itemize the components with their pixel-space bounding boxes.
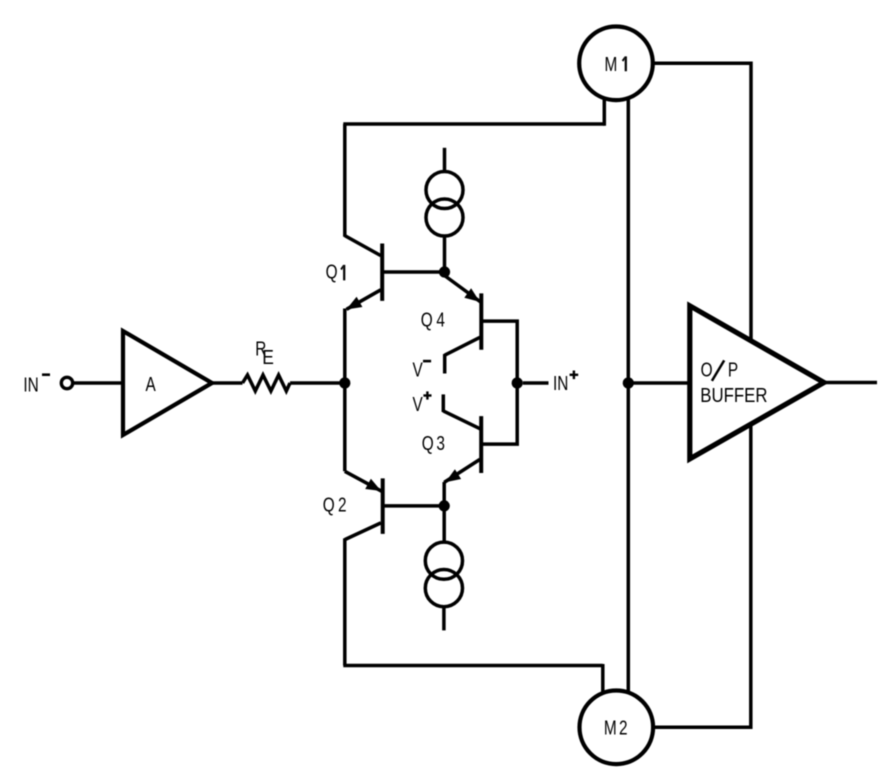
amplifier A [123, 331, 212, 435]
label IN- [23, 373, 50, 396]
svg-text:O: O [701, 358, 713, 381]
op-amp O/P buffer triangle [690, 306, 824, 459]
svg-text:A: A [146, 373, 157, 396]
transistor Q4 collector diagonal [445, 337, 480, 355]
wire Q3 emitter stub [442, 482, 446, 506]
transistor Q1 bar [380, 244, 384, 301]
wire IN- to amp A [74, 381, 124, 385]
wire resistor to node [290, 381, 345, 385]
svg-text:Q: Q [422, 432, 434, 455]
transistor Q1 collector diagonal [345, 236, 381, 256]
label Q3 [422, 432, 445, 455]
svg-text:2: 2 [619, 716, 628, 739]
transistor Q3 base-side diagonal from V+ [443, 411, 481, 429]
svg-text:Q: Q [323, 493, 335, 516]
current source I2 bottom stub [442, 607, 446, 631]
current source I1 circle 2 [426, 199, 463, 236]
node junction dot (inverting input node) [339, 377, 350, 388]
transistor Q3 emitter arrow [445, 469, 461, 482]
input terminal IN- (open circle) [61, 377, 72, 388]
transistor Q1 emitter arrow [346, 297, 362, 310]
wire M1 left leg [603, 99, 604, 125]
label Q4 [421, 309, 445, 332]
transistor Q3 emitter diagonal [444, 459, 480, 482]
wire I1 to node A [443, 236, 447, 272]
current source I1 circle 1 [426, 172, 463, 209]
svg-text:BUFFER: BUFFER [700, 383, 767, 406]
wire M2 left leg [601, 664, 605, 695]
wire I2 from node [442, 506, 446, 543]
svg-text:P: P [728, 358, 738, 381]
transistor Q3 bar [479, 416, 483, 473]
resistor RE [243, 337, 291, 391]
svg-text:V: V [413, 358, 423, 381]
wire top rail [343, 122, 604, 126]
V- stub [443, 354, 447, 374]
label M2 [604, 716, 628, 739]
svg-text:E: E [262, 347, 274, 370]
current source I1 top stub [443, 148, 447, 173]
current mirror M1 circle [579, 27, 653, 101]
wire node up to Q1 emitter [343, 309, 347, 384]
current source I2 circle 1 [425, 542, 462, 579]
wire amp to resistor [212, 381, 243, 385]
label Q2 [323, 493, 347, 516]
current source I2 circle 2 [425, 570, 462, 607]
transistor Q2 bar [381, 478, 385, 534]
wire bottom rail [343, 664, 603, 668]
wire node to buffer [628, 381, 690, 385]
wire node down to Q2 emitter [343, 383, 347, 471]
wire M2 right [653, 426, 751, 728]
label IN+ [553, 371, 578, 395]
wire IN+ [523, 381, 549, 385]
wire M1 right [653, 63, 751, 339]
label M1 [605, 53, 627, 76]
svg-text:Q: Q [326, 260, 338, 283]
transistor Q3 base wire [481, 383, 517, 444]
transistor Q4 bar [479, 293, 483, 349]
transistor Q4 emitter arrow [464, 288, 480, 302]
current mirror M2 circle [580, 691, 654, 765]
V+ stub [442, 394, 446, 412]
node junction dot buffer input [623, 377, 634, 388]
transistor Q4 base wire [481, 321, 517, 383]
wire buffer output [824, 381, 877, 385]
label V- [413, 358, 432, 381]
node junction dot Q1 base / I1 [439, 266, 450, 277]
wire Q2 collector down [343, 538, 347, 665]
wire Q1 collector up [343, 124, 347, 237]
svg-text:3: 3 [436, 432, 445, 455]
svg-text:2: 2 [338, 493, 347, 516]
transistor Q2 emitter arrow [365, 479, 381, 491]
svg-text:V: V [413, 393, 423, 416]
transistor Q2 emitter diagonal [345, 471, 383, 492]
svg-text:IN: IN [23, 373, 38, 396]
svg-text:4: 4 [436, 309, 445, 332]
node junction dot Q2 base / I2 [439, 500, 450, 511]
svg-text:IN: IN [553, 372, 568, 395]
label Q1 [326, 260, 346, 283]
transistor Q1 base wire [382, 270, 444, 274]
node IN+ junction dot [512, 377, 523, 388]
transistor Q4 emitter diagonal [445, 276, 482, 303]
svg-text:Q: Q [421, 309, 433, 332]
transistor Q2 collector diagonal [345, 523, 381, 540]
transistor Q2 base wire [383, 504, 445, 508]
label V+ [413, 391, 432, 415]
svg-text:M: M [604, 716, 617, 739]
svg-text:M: M [605, 53, 618, 76]
transistor Q1 emitter diagonal [347, 290, 381, 310]
wire center trunk M1 to M2 [627, 98, 631, 692]
